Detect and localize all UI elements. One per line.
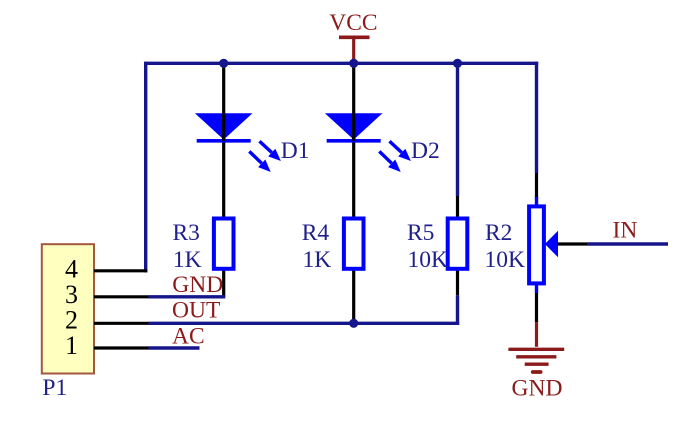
wire right riser (rail to R2)	[535, 62, 538, 173]
power symbol GND bar 4	[533, 370, 541, 374]
power symbol GND stem	[535, 322, 538, 347]
svg-text:D2: D2	[411, 138, 440, 164]
svg-text:AC: AC	[172, 324, 205, 350]
wire left riser (P1.4 to rail)	[144, 62, 147, 273]
pin P1.2 (black stub)	[94, 322, 149, 325]
power symbol VCC stem	[352, 37, 355, 62]
pin R2 top (black)	[535, 173, 538, 199]
wire/pins D2-R4 column (black)	[352, 63, 355, 323]
LED D1 emission arrow 1	[260, 141, 272, 152]
connector P1 body	[42, 244, 94, 373]
potentiometer R2 body	[529, 206, 544, 283]
junction dot VCC/D2 column	[349, 59, 358, 68]
power symbol GND bar 1	[508, 348, 564, 351]
svg-text:10K: 10K	[408, 247, 449, 273]
power symbol VCC bar	[339, 35, 370, 39]
resistor R4	[344, 219, 364, 269]
svg-text:VCC: VCC	[329, 10, 377, 36]
pin R5 top (black)	[456, 196, 459, 219]
junction dot R5 column	[453, 59, 462, 68]
pin P1.3 (black stub)	[94, 295, 149, 298]
LED D1 emission arrow 2	[249, 151, 261, 163]
pin P1.1 (black stub)	[94, 346, 149, 349]
wire GND net	[149, 295, 226, 298]
LED D2 emission arrow 2	[379, 151, 391, 163]
stub R2 bottom (blue)	[535, 283, 538, 293]
svg-text:GND: GND	[512, 375, 563, 401]
svg-text:IN: IN	[613, 218, 638, 244]
LED D2 triangle	[325, 113, 383, 139]
stub R2 top (blue)	[535, 197, 538, 207]
svg-text:10K: 10K	[485, 247, 526, 273]
resistor R3	[214, 219, 234, 269]
wire R5 bottom to OUT (navy)	[456, 295, 459, 325]
svg-text:R2: R2	[485, 220, 512, 246]
power symbol GND bar 3	[525, 363, 549, 366]
wire/pins D1-R3 column (black)	[222, 63, 225, 296]
power symbol GND bar 2	[516, 355, 556, 358]
LED D2 emission arrow 1	[390, 141, 402, 152]
wire OUT net	[149, 322, 460, 325]
junction dot D1 column	[219, 59, 228, 68]
wire D2 through triangle	[352, 113, 355, 141]
svg-text:OUT: OUT	[172, 298, 220, 324]
wire AC net	[149, 346, 200, 349]
svg-text:R4: R4	[302, 220, 330, 246]
svg-text:D1: D1	[281, 138, 310, 164]
wire D1 through triangle	[222, 113, 225, 141]
wire R5 column upper (navy)	[456, 63, 459, 196]
svg-text:GND: GND	[172, 272, 223, 298]
svg-text:P1: P1	[42, 375, 67, 401]
pin R2 bottom (black)	[535, 293, 538, 322]
resistor R5	[448, 219, 468, 269]
pin R2 wiper (black)	[558, 242, 588, 245]
wire VCC top rail	[146, 62, 539, 65]
svg-text:4: 4	[65, 254, 78, 283]
pin R5 bottom (black)	[456, 269, 459, 296]
svg-text:1K: 1K	[173, 247, 202, 273]
potentiometer R2 wiper arrow head	[545, 231, 558, 257]
LED D2 cathode bar	[327, 139, 381, 143]
LED D1 cathode bar	[197, 139, 251, 143]
junction dot OUT/R4	[349, 319, 358, 328]
svg-text:R3: R3	[173, 220, 200, 246]
svg-text:1K: 1K	[303, 247, 332, 273]
svg-text:R5: R5	[407, 220, 434, 246]
LED D1 triangle	[195, 113, 253, 139]
wire IN net	[587, 242, 668, 245]
svg-text:1: 1	[65, 331, 78, 360]
pin P1.4 (black stub)	[94, 269, 147, 272]
